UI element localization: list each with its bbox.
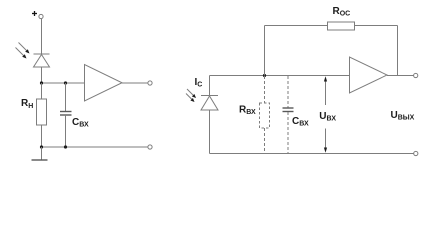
terminal output A2 (open circle) (414, 73, 418, 77)
capacitor C_BX bottom plate (60, 114, 72, 116)
wire input node line to op-amp A1 (42, 82, 85, 84)
photodiode VD1 triangle (34, 55, 50, 68)
photodiode VD2 triangle (201, 96, 218, 110)
node + supply terminal label (32, 11, 37, 16)
svg-text:UВХ: UВХ (319, 111, 336, 123)
wire rail corner down to photodiode VD2 (209, 76, 211, 96)
U_BX arrow lower segment (325, 129, 327, 151)
svg-text:RОС: RОС (333, 6, 351, 18)
svg-text:RН: RН (21, 98, 33, 110)
resistor R_OC body (328, 22, 355, 30)
U_BX arrow upper segment (325, 79, 327, 105)
capacitor C_BX2 bottom plate (283, 111, 294, 113)
photodiode VD1 light arrow 2 (16, 48, 27, 59)
wire op-amp A1 output (122, 82, 148, 84)
wire capacitor C_BX to ground rail (65, 115, 67, 147)
wire feedback top right segment (355, 25, 398, 27)
svg-text:RВХ: RВХ (239, 105, 256, 117)
op-amp A2 triangle (350, 57, 388, 93)
resistor R_BX dashed bottom lead (264, 128, 266, 153)
terminal bottom right (open circle) (414, 151, 418, 155)
resistor R_BX dashed top lead (264, 76, 266, 103)
photodiode VD1 light arrow 1 (19, 43, 30, 54)
capacitor C_BX2 dashed top lead (287, 76, 289, 108)
svg-text:UВЫХ: UВЫХ (391, 110, 415, 122)
svg-text:CВХ: CВХ (72, 117, 89, 129)
resistor R_BX dashed body (260, 103, 270, 128)
svg-text:CВХ: CВХ (292, 116, 309, 128)
junction dot rail at R_H bottom (40, 145, 43, 148)
photodiode VD2 light arrow 1 (187, 89, 196, 98)
capacitor C_BX top plate (60, 111, 72, 113)
wire feedback left vertical (264, 26, 266, 76)
ground rail wire (left circuit) (42, 146, 148, 148)
terminal + (open circle) (39, 14, 43, 18)
wire resistor R_H to ground rail (41, 125, 43, 147)
capacitor C_BX2 dashed bottom lead (287, 112, 289, 153)
terminal bottom common (open circle) (148, 145, 152, 149)
capacitor C_BX2 top plate (283, 107, 294, 109)
op-amp A1 triangle (85, 65, 123, 102)
wire photodiode VD2 anode to bottom rail (209, 110, 211, 154)
ground stub wire (41, 147, 43, 160)
ground symbol bar (32, 159, 48, 161)
U_BX arrowhead down (324, 148, 327, 153)
junction dot rail at C_BX bottom (64, 145, 67, 148)
bottom rail wire (right circuit) (210, 153, 414, 155)
photodiode VD1 cathode bar (34, 53, 50, 55)
terminal output A1 (open circle) (148, 81, 152, 85)
wire photodiode anode to input node (41, 67, 43, 83)
wire from + terminal to photodiode VD1 cathode (41, 19, 43, 54)
svg-text:IС: IС (195, 77, 203, 89)
node junction dot at R_H top (40, 81, 43, 84)
resistor R_H body (37, 99, 47, 125)
junction dot feedback tap on input rail (263, 74, 266, 77)
U_BX arrowhead up (324, 76, 327, 81)
wire node to capacitor C_BX (65, 83, 67, 112)
wire feedback right vertical to output (397, 26, 399, 76)
node junction dot at C_BX top (64, 81, 67, 84)
wire feedback top left segment (265, 25, 328, 27)
photodiode VD2 cathode bar (201, 95, 218, 97)
wire op-amp A2 output (387, 75, 414, 77)
wire node to resistor R_H (41, 83, 43, 99)
wire input rail (top node) (210, 75, 350, 77)
photodiode VD2 light arrow 2 (186, 94, 195, 103)
